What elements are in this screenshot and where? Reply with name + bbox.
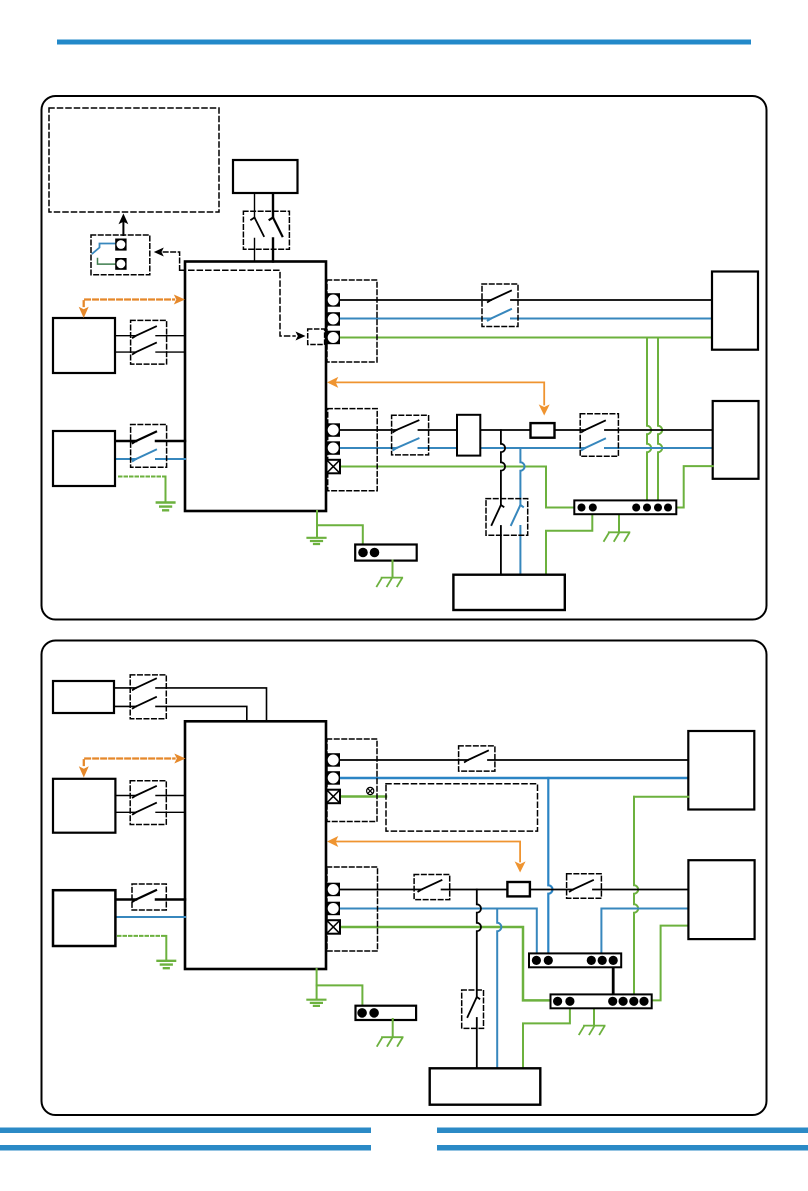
generator breaker blade 2 [270, 218, 283, 237]
grid box [712, 272, 758, 350]
CT2 [115, 258, 126, 270]
PV2 breaker blade 1 [133, 786, 156, 797]
busbar ground symbol [604, 532, 629, 541]
generator2 box [53, 681, 114, 713]
grid wire PE [340, 337, 712, 339]
load breaker 2 blade N [582, 439, 605, 450]
U1 earth symbol [308, 538, 326, 544]
orange dashed arrow PV to U1 [84, 300, 174, 307]
small busbar2 ground stub [392, 1019, 394, 1037]
small earth busbar [355, 545, 417, 561]
grid2 PE drop with hops [634, 797, 638, 996]
orange dashed arrow PV2 to U2 [84, 759, 175, 766]
isolation box [457, 415, 480, 456]
terminal N-out [327, 312, 341, 326]
battery2 breaker dashed box [132, 884, 166, 910]
generator wire L [254, 193, 256, 262]
PV box [53, 318, 115, 373]
load2 breaker 2 blade [570, 880, 593, 891]
load2 wire L [340, 889, 688, 891]
busbar terminal dots [578, 504, 673, 512]
backup2 box [688, 860, 754, 939]
PV breaker blade 2 [133, 343, 156, 354]
footer rule bottom-left [0, 1145, 371, 1151]
header rule [57, 40, 751, 45]
PE busbar2 ground stub [593, 1007, 595, 1025]
arrow CT to note box [122, 222, 124, 235]
battery2 earth dotted wire [118, 935, 166, 937]
PV2 box [53, 779, 115, 833]
orange meter arrow 2 [330, 842, 520, 862]
generator2 breaker dashed box [130, 675, 166, 719]
terminal group 2 dashed box [328, 409, 378, 491]
dashed arrow U1 to CT box [158, 252, 180, 270]
small busbar ground symbol [377, 578, 402, 587]
battery box [53, 431, 115, 486]
U2 PE terminal wire [340, 795, 386, 798]
PE busbar link to backup [675, 466, 712, 507]
load breaker 2 blade L [582, 421, 605, 432]
PV2 breaker dashed box [130, 781, 166, 825]
backup2 wire N [601, 909, 688, 954]
U2 earth symbol [307, 1000, 325, 1006]
terminal2 L-load [327, 883, 341, 897]
battery earth wire [165, 477, 167, 502]
terminal group 1 dashed box [327, 280, 377, 362]
grid breaker dashed box [482, 284, 518, 327]
small busbar2 dots [357, 1008, 379, 1018]
footer rule top-left [0, 1128, 371, 1134]
terminal2 N-load [327, 902, 341, 916]
load wire N [340, 447, 713, 449]
load breaker 1 dashed box [392, 415, 429, 455]
load drop blade N [511, 505, 523, 525]
load2 box [430, 1068, 541, 1104]
load2 wire N [340, 909, 537, 954]
grid2 breaker dashed box [459, 746, 495, 771]
terminal L-out [327, 293, 341, 307]
PV wire 1 [115, 335, 185, 337]
earth stub dashed box [308, 329, 325, 345]
battery earth symbol [157, 503, 175, 511]
grid2 wire N [340, 777, 688, 780]
grid2 box [688, 731, 754, 810]
generator breaker dashed box [243, 211, 289, 249]
grid2 N drop to busbar with hop [548, 778, 552, 953]
battery2 box [53, 890, 115, 946]
terminal N-load [327, 441, 341, 455]
PV breaker dashed box [131, 320, 167, 364]
battery2 wire + [115, 898, 185, 901]
N busbar dots [532, 956, 618, 965]
footer rule bottom-right [437, 1145, 808, 1151]
arrow to earth stub [296, 332, 306, 341]
note dashed box [49, 108, 219, 212]
N busbar [529, 953, 621, 967]
terminal group 2 dashed box 2 [327, 867, 378, 951]
grid breaker blade L [488, 291, 511, 302]
PV wire 2 [115, 351, 185, 353]
battery2 earth wire [165, 936, 167, 960]
U1 chassis earth wire [316, 511, 318, 537]
generator2 breaker blade 1 [133, 679, 156, 690]
terminal2 N-out [327, 771, 341, 785]
battery2 earth symbol [158, 961, 176, 968]
PV2 wire 2 [115, 811, 185, 813]
load2 L drop lower [476, 1018, 478, 1068]
U2 earth to small busbar [317, 985, 363, 1005]
terminal L-load [327, 423, 341, 437]
load2 breaker 1 blade [418, 880, 441, 891]
meter box [531, 423, 555, 438]
grid wire N [340, 318, 712, 320]
panel 2 border [42, 641, 767, 1116]
battery wire - [115, 458, 185, 460]
load2 breaker 1 dashed box [414, 875, 450, 900]
load wire PE [340, 467, 574, 508]
load2 drop breaker dashed box [462, 990, 484, 1028]
backup2 wire PE [651, 926, 689, 1001]
terminal PE-load crossed [327, 460, 341, 474]
terminal2 L-out [327, 753, 341, 767]
load2 wire PE [340, 927, 551, 1000]
PE note symbol [367, 787, 374, 794]
panel 1 border [42, 96, 767, 620]
battery breaker blade 1 [133, 432, 156, 443]
generator2 breaker blade 2 [133, 697, 156, 708]
battery wire + [115, 440, 185, 443]
load N drop lower [519, 526, 521, 575]
meter2 box [507, 882, 530, 896]
N busbar link [612, 962, 615, 996]
terminal group 1 dashed box 2 [327, 739, 377, 822]
load2 L drop with hops [477, 890, 481, 998]
U1 internal dashed partition [180, 270, 295, 336]
grid PE drop 1 with hops [647, 338, 651, 502]
generator box [233, 160, 298, 193]
generator2 wire 2 [114, 706, 247, 721]
small busbar dots [358, 548, 379, 558]
PV2 wire 1 [115, 795, 185, 797]
inverter U1 [185, 262, 326, 512]
PE busbar2 [551, 994, 652, 1008]
terminal2 PE-out crossed [327, 790, 341, 804]
PE busbar to load box [546, 510, 592, 575]
battery breaker dashed box [131, 425, 167, 468]
grid PE drop 2 with hops [658, 338, 662, 502]
battery2 breaker blade [133, 890, 156, 901]
small busbar ground stub [392, 561, 394, 577]
CT1 [115, 239, 126, 251]
grid wire L [340, 299, 712, 301]
generator2 wire 1 [114, 688, 267, 721]
small earth busbar2 [356, 1006, 417, 1020]
small busbar2 ground symbol [377, 1037, 402, 1046]
load2 N drop with hop [497, 909, 501, 1069]
orange meter arrow [330, 382, 544, 404]
load breaker 1 blade N [393, 438, 418, 450]
inverter U2 [185, 721, 326, 969]
load L drop lower [500, 526, 502, 575]
backup box [713, 401, 759, 479]
U2 chassis earth wire [316, 969, 318, 999]
load drop breaker dashed box [486, 499, 528, 536]
battery breaker blade 2 [133, 450, 156, 461]
busbar2 ground symbol [579, 1026, 604, 1035]
load2 drop blade [468, 997, 480, 1017]
PE busbar ground stub [618, 514, 620, 532]
CT dashed box [91, 235, 150, 275]
terminal2 PE-load crossed [327, 920, 341, 934]
grid2 breaker blade [465, 751, 488, 762]
load wire L [340, 429, 713, 431]
CT L1 wire [93, 244, 116, 254]
load2 breaker 2 dashed box [567, 874, 602, 899]
generator breaker blade 1 [251, 218, 264, 237]
load L drop with hops [501, 430, 505, 505]
grid breaker blade N [488, 309, 511, 320]
generator wire N [272, 193, 274, 262]
CT L2 wire [98, 259, 116, 265]
load drop blade L [492, 505, 504, 525]
grid2 wire L [340, 759, 688, 761]
PV breaker blade 1 [133, 326, 156, 337]
PE busbar2 dots [553, 997, 649, 1006]
PE note dashed box [386, 784, 538, 831]
grid2 PE wire [634, 796, 688, 798]
PV2 breaker blade 2 [133, 803, 156, 814]
terminal PE-out [327, 331, 341, 345]
PE busbar2 to load box [523, 1003, 570, 1068]
load N drop with hop [520, 448, 524, 505]
battery earth dotted wire [119, 476, 166, 478]
PE busbar [574, 500, 676, 514]
load breaker 1 blade L [393, 420, 418, 432]
battery2 wire - [115, 916, 185, 918]
footer rule top-right [437, 1128, 808, 1134]
load breaker 2 dashed box [580, 414, 618, 456]
load box [453, 575, 564, 610]
U1 earth to small busbar [317, 525, 363, 544]
